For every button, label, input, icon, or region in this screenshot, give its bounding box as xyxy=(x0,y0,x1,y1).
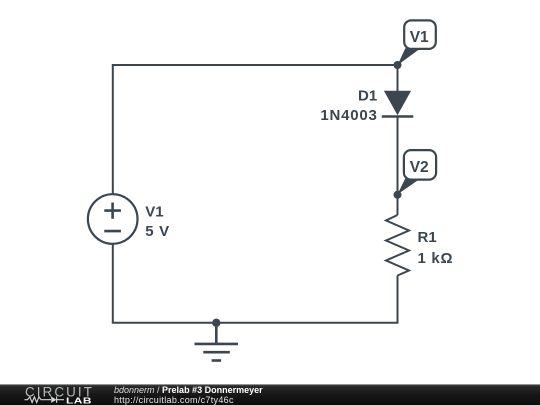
wire top horizontal xyxy=(113,64,398,66)
footer bar xyxy=(0,384,540,405)
svg-text:1N4003: 1N4003 xyxy=(320,107,377,124)
wire node V2 to resistor xyxy=(397,195,399,215)
wire right vertical below resistor xyxy=(397,276,399,323)
svg-text:V1: V1 xyxy=(410,29,429,46)
svg-text:V1: V1 xyxy=(145,203,163,220)
resistor R1 xyxy=(386,215,409,276)
node C (ground junction) xyxy=(212,319,220,327)
wire left vertical (bottom) xyxy=(112,244,114,323)
svg-text:1 kΩ: 1 kΩ xyxy=(418,250,454,267)
resistor R1 labels xyxy=(418,229,454,267)
wire diode to node V2 xyxy=(397,117,399,196)
svg-text:LAB: LAB xyxy=(66,397,92,405)
svg-text:V2: V2 xyxy=(410,159,429,176)
flag node name V1 xyxy=(398,20,436,65)
svg-text:bdonnerm / Prelab #3 Donnermey: bdonnerm / Prelab #3 Donnermeyer xyxy=(114,385,263,395)
voltage source V1 xyxy=(88,194,138,244)
diode D1 xyxy=(382,91,414,117)
svg-text:http://circuitlab.com/c7ty46c: http://circuitlab.com/c7ty46c xyxy=(114,395,234,405)
flag node name V2 xyxy=(397,150,436,194)
ground xyxy=(195,323,239,361)
wire right vertical above diode xyxy=(397,65,399,91)
footer logo CIRCUIT LAB xyxy=(25,384,95,405)
wire left vertical (top) xyxy=(112,65,114,194)
node B (net V2 junction) xyxy=(394,191,402,199)
svg-text:5 V: 5 V xyxy=(145,223,170,240)
diode D1 labels xyxy=(320,88,377,125)
wire bottom horizontal xyxy=(113,322,398,324)
svg-text:D1: D1 xyxy=(358,88,377,105)
node A (net V1 junction) xyxy=(394,61,402,69)
voltage source V1 labels xyxy=(145,203,170,240)
svg-text:R1: R1 xyxy=(418,229,437,246)
